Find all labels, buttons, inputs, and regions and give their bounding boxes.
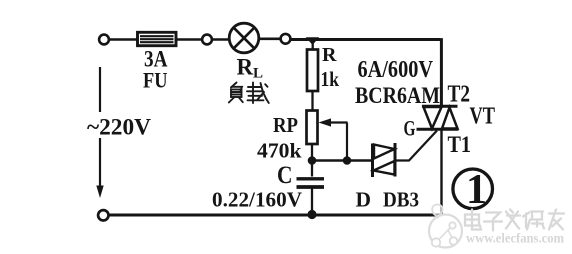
label T1 bbox=[448, 132, 472, 157]
wire RC node to diac bbox=[312, 159, 372, 161]
terminal between fuse and lamp (open circle) bbox=[202, 35, 212, 45]
label R (for resistor) bbox=[322, 44, 337, 66]
label 0.22/160V bbox=[212, 188, 302, 212]
svg-text:www.elecfans.com: www.elecfans.com bbox=[466, 231, 565, 246]
terminal top-left (open circle) bbox=[99, 35, 109, 45]
svg-text:BCR6AM: BCR6AM bbox=[355, 83, 440, 108]
svg-text:~220V: ~220V bbox=[87, 115, 151, 140]
svg-text:T1: T1 bbox=[448, 132, 472, 157]
svg-text:R: R bbox=[237, 55, 254, 80]
figure number circled 1 bbox=[453, 167, 493, 213]
label FU bbox=[143, 68, 168, 93]
potentiometer RP (vertical box) bbox=[307, 111, 318, 145]
terminal bottom-left (open circle) bbox=[98, 210, 108, 220]
label VT bbox=[470, 104, 496, 130]
node junction wiper wire joins RC net bbox=[343, 156, 352, 165]
label 1k bbox=[321, 67, 340, 91]
svg-text:RP: RP bbox=[273, 113, 298, 137]
label BCR6AM bbox=[355, 83, 440, 108]
svg-text:VT: VT bbox=[470, 104, 496, 130]
svg-text:DB3: DB3 bbox=[383, 188, 419, 212]
wire lamp to right terminal bbox=[259, 37, 281, 40]
wire top rail to top-right corner and down to triac T2 bbox=[291, 38, 442, 107]
svg-text:R: R bbox=[322, 44, 337, 66]
terminal right of lamp (open circle) bbox=[281, 34, 291, 44]
wire bottom rail bbox=[108, 214, 441, 217]
watermark text 电子发烧友 hand-drawn gray glyphs bbox=[465, 210, 564, 231]
triac VT (two triangles, bars, T2 top, T1 bottom, gate G) bbox=[417, 106, 459, 129]
lamp RL load (circle with X) bbox=[229, 23, 259, 53]
wire R to RP bbox=[311, 91, 313, 111]
wire diac to triac gate (diagonal) bbox=[395, 131, 437, 161]
capacitor C (two plates) bbox=[297, 179, 325, 187]
svg-text:1k: 1k bbox=[321, 67, 340, 91]
wire fuse to middle terminal bbox=[176, 38, 203, 41]
wire junction down to resistor R bbox=[312, 40, 314, 51]
diac D DB3 (two bars and two triangles) bbox=[373, 143, 396, 177]
wire triac T1 down to bottom rail bbox=[440, 130, 442, 216]
svg-text:L: L bbox=[253, 66, 263, 82]
label 3A bbox=[144, 47, 168, 72]
label RL bbox=[237, 55, 264, 82]
svg-text:C: C bbox=[277, 162, 293, 189]
svg-text:T2: T2 bbox=[448, 82, 471, 108]
~220V source arrow bbox=[96, 67, 103, 198]
svg-text:470k: 470k bbox=[257, 139, 302, 163]
svg-text:FU: FU bbox=[143, 68, 168, 93]
svg-text:1: 1 bbox=[466, 167, 487, 213]
wire top rail segment from left terminal to fuse bbox=[109, 38, 139, 41]
resistor R (vertical box) bbox=[307, 50, 318, 92]
svg-text:6A/600V: 6A/600V bbox=[358, 56, 434, 83]
label 6A/600V bbox=[358, 56, 434, 83]
label ~220V bbox=[87, 115, 151, 140]
label 470k bbox=[257, 139, 302, 163]
svg-text:G: G bbox=[404, 116, 416, 141]
svg-text:D: D bbox=[356, 188, 372, 212]
node junction RP bottom / RC net bbox=[308, 156, 317, 165]
label D DB3 bbox=[356, 188, 420, 212]
label 负载 (load) hand-drawn glyphs bbox=[229, 83, 269, 104]
svg-text:0.22/160V: 0.22/160V bbox=[212, 188, 302, 212]
watermark text www.elecfans.com bbox=[466, 231, 565, 246]
label RP bbox=[273, 113, 298, 137]
label C bbox=[277, 162, 293, 189]
junction node capacitor on bottom rail bbox=[307, 210, 316, 219]
potentiometer RP wiper arrow and wire down to node bbox=[319, 118, 348, 160]
label G bbox=[404, 116, 416, 141]
wire capacitor to bottom rail bbox=[311, 188, 313, 215]
wire RP bottom down through node to capacitor bbox=[311, 144, 313, 177]
watermark logo (elecfans molecule pin) bbox=[429, 205, 462, 248]
label T2 bbox=[448, 82, 471, 108]
fuse FU 3A (rectangle with element lines) bbox=[138, 32, 177, 45]
junction node at top rail / R branch bbox=[306, 37, 319, 45]
wire terminal to lamp bbox=[212, 38, 230, 41]
